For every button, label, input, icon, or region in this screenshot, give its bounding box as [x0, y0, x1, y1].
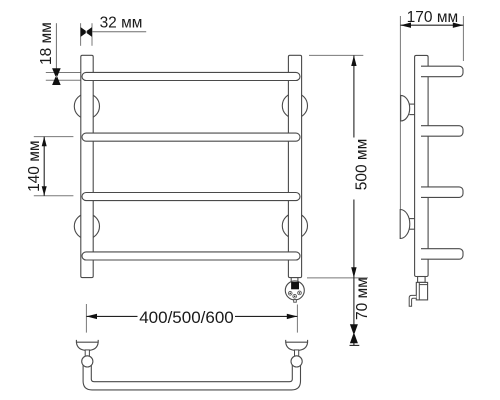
- arrows 400/500/600: [86, 314, 97, 319]
- dim line 70mm: [353, 278, 355, 346]
- svg-text:400/500/600: 400/500/600: [139, 308, 234, 327]
- right post front: [288, 55, 301, 277]
- bottom view: left flange bowl: [76, 340, 98, 351]
- plug pin 3: [298, 291, 302, 295]
- svg-text:500 мм: 500 мм: [353, 139, 370, 190]
- side view: bar 3: [421, 187, 463, 198]
- side view: bar 4: [421, 249, 463, 260]
- bottom tick 70mm: [350, 344, 360, 346]
- plug stem: [294, 300, 297, 303]
- extension line 500mm top: [309, 54, 363, 56]
- arrow bowtie 18mm: [52, 68, 61, 85]
- arrows 170mm: [400, 23, 411, 28]
- extension line width dim right: [296, 305, 298, 333]
- dim line 140mm: [43, 137, 45, 196]
- bottom view: tube U-shape inner: [91, 365, 292, 382]
- extension ticks 32mm: [80, 23, 82, 46]
- extension lines 18mm: [46, 72, 86, 74]
- side view: wall line: [399, 16, 401, 239]
- side view: cable hook: [409, 295, 416, 306]
- wall mount circle front top-right: [282, 93, 307, 118]
- dim line 400/500/600: [86, 315, 137, 317]
- bottom view: right ball joint: [291, 356, 302, 367]
- side view: heating element body: [416, 282, 427, 300]
- svg-text:18 мм: 18 мм: [38, 22, 55, 65]
- side view: bar 1: [421, 66, 463, 77]
- bottom view: right flange bowl: [286, 340, 308, 351]
- dim line 170mm: [400, 24, 463, 26]
- wall mount circle front bottom-right: [282, 213, 307, 238]
- dim line 500mm: [353, 55, 355, 137]
- extension line width dim left: [85, 304, 87, 333]
- bottom view: tube U-shape outer: [83, 365, 300, 390]
- svg-text:32 мм: 32 мм: [100, 15, 143, 32]
- side view: post: [415, 55, 429, 276]
- svg-text:170 мм: 170 мм: [407, 9, 458, 26]
- dim line 18mm: [55, 23, 57, 85]
- bar 2 front: [82, 133, 300, 141]
- bottom view: right neck: [295, 350, 299, 357]
- extension lines 140mm: [34, 136, 74, 138]
- arrow bowtie 70mm: [350, 324, 358, 343]
- svg-text:70 мм: 70 мм: [354, 277, 371, 320]
- arrows 500mm: [351, 55, 356, 66]
- heating element plug circle front: [285, 281, 304, 300]
- bottom view: left neck: [85, 350, 89, 357]
- side view: 170mm right extension: [462, 16, 464, 61]
- leader line 32mm: [92, 31, 146, 33]
- bottom view: left ball joint: [82, 356, 93, 367]
- arrow bowtie 32mm: [81, 27, 92, 37]
- wall mount circle front top-left: [74, 94, 99, 119]
- side view: wall bracket 1: [401, 95, 410, 121]
- side view: bar 2: [421, 126, 463, 137]
- arrows 140mm: [42, 137, 47, 147]
- plug black square: [291, 282, 299, 289]
- svg-text:140 мм: 140 мм: [26, 140, 43, 191]
- side view: element neck: [418, 277, 426, 283]
- bar 4 front: [82, 252, 300, 260]
- wall mount circle front bottom-left: [74, 214, 99, 239]
- plug pin 2: [293, 294, 297, 298]
- extension line 500mm bottom: [307, 277, 368, 279]
- heating element neck front: [291, 278, 298, 282]
- bar 3 front: [82, 193, 300, 201]
- side view: wall bracket 2: [400, 210, 410, 239]
- left post front: [81, 55, 93, 277]
- bar 1 front: [82, 72, 300, 80]
- plug pin 1: [288, 291, 292, 295]
